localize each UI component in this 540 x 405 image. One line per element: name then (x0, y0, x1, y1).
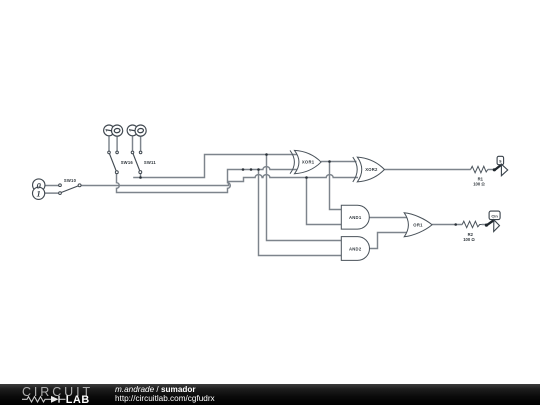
wire AND1 output to OR1 upper input (369, 217, 407, 219)
svg-text:Cin: Cin (491, 213, 498, 218)
svg-text:AND2: AND2 (349, 247, 362, 252)
svg-text:1: 1 (36, 189, 40, 199)
junction dot H2 c (257, 168, 260, 171)
wire R2 to LED2 (482, 224, 486, 226)
wire branch V3 A to AND1 lower input (307, 178, 342, 225)
or gate OR1 (404, 213, 432, 237)
and gate AND2 (341, 237, 369, 261)
svg-text:LAB: LAB (66, 394, 90, 405)
junction dot XOR1 out branch (328, 160, 331, 163)
wire net A from SW10 to XOR2 lower input (81, 175, 358, 186)
wire branch V1 Cin to AND2 upper input (267, 155, 342, 241)
xor gate XOR2 (353, 157, 385, 182)
wire XOR2 output to R1 (384, 169, 470, 171)
junction dot H2 b (250, 168, 253, 171)
wire AND2 output to OR1 lower input (370, 233, 408, 249)
svg-text:XOR2: XOR2 (365, 167, 378, 172)
led indicator s (493, 156, 508, 175)
svg-text:m.andrade / sumador: m.andrade / sumador (115, 385, 196, 394)
wire net B from SW16 to XOR1 lower input (117, 167, 298, 193)
svg-text:1: 1 (129, 128, 139, 133)
svg-text:XOR1: XOR1 (302, 160, 315, 165)
svg-text:http://circuitlab.com/cgfudrx: http://circuitlab.com/cgfudrx (115, 394, 215, 403)
switch SW16 (104, 125, 134, 174)
logo diode symbol (51, 396, 59, 403)
svg-text:100 Ω: 100 Ω (473, 182, 485, 187)
switch SW10 (33, 178, 82, 199)
wire R1 to LED1 (488, 169, 494, 171)
led indicator Cin (485, 211, 500, 231)
svg-text:OR1: OR1 (413, 223, 423, 228)
svg-text:1: 1 (105, 128, 115, 133)
xor gate XOR1 (290, 150, 321, 173)
logo resistor diode line (22, 397, 66, 402)
wire branch V2 B to AND2 lower input (259, 170, 342, 256)
junction dot SW11 stub (139, 176, 142, 179)
svg-text:SW11: SW11 (144, 160, 156, 165)
footer bar (0, 384, 540, 405)
junction dot H1 Cin branch (265, 153, 268, 156)
junction dot A branch (305, 176, 308, 179)
svg-text:SW16: SW16 (121, 160, 134, 165)
resistor R2 (462, 221, 482, 242)
svg-text:SW10: SW10 (64, 178, 77, 183)
and gate AND1 (341, 205, 369, 229)
wire OR1 output to R2 (432, 224, 462, 226)
junction dot OR1 out (454, 223, 457, 226)
svg-text:AND1: AND1 (349, 215, 362, 220)
svg-text:100 Ω: 100 Ω (463, 237, 475, 242)
resistor R1 (471, 166, 488, 186)
wire branch V4 XOR1 output to AND1 upper input (330, 162, 342, 210)
wire net Cin from SW11 to XOR1 upper input (133, 155, 297, 178)
wire XOR1 output to XOR2 upper input (321, 161, 356, 163)
switch SW11 (127, 125, 156, 174)
junction dot H2 a (242, 168, 245, 171)
